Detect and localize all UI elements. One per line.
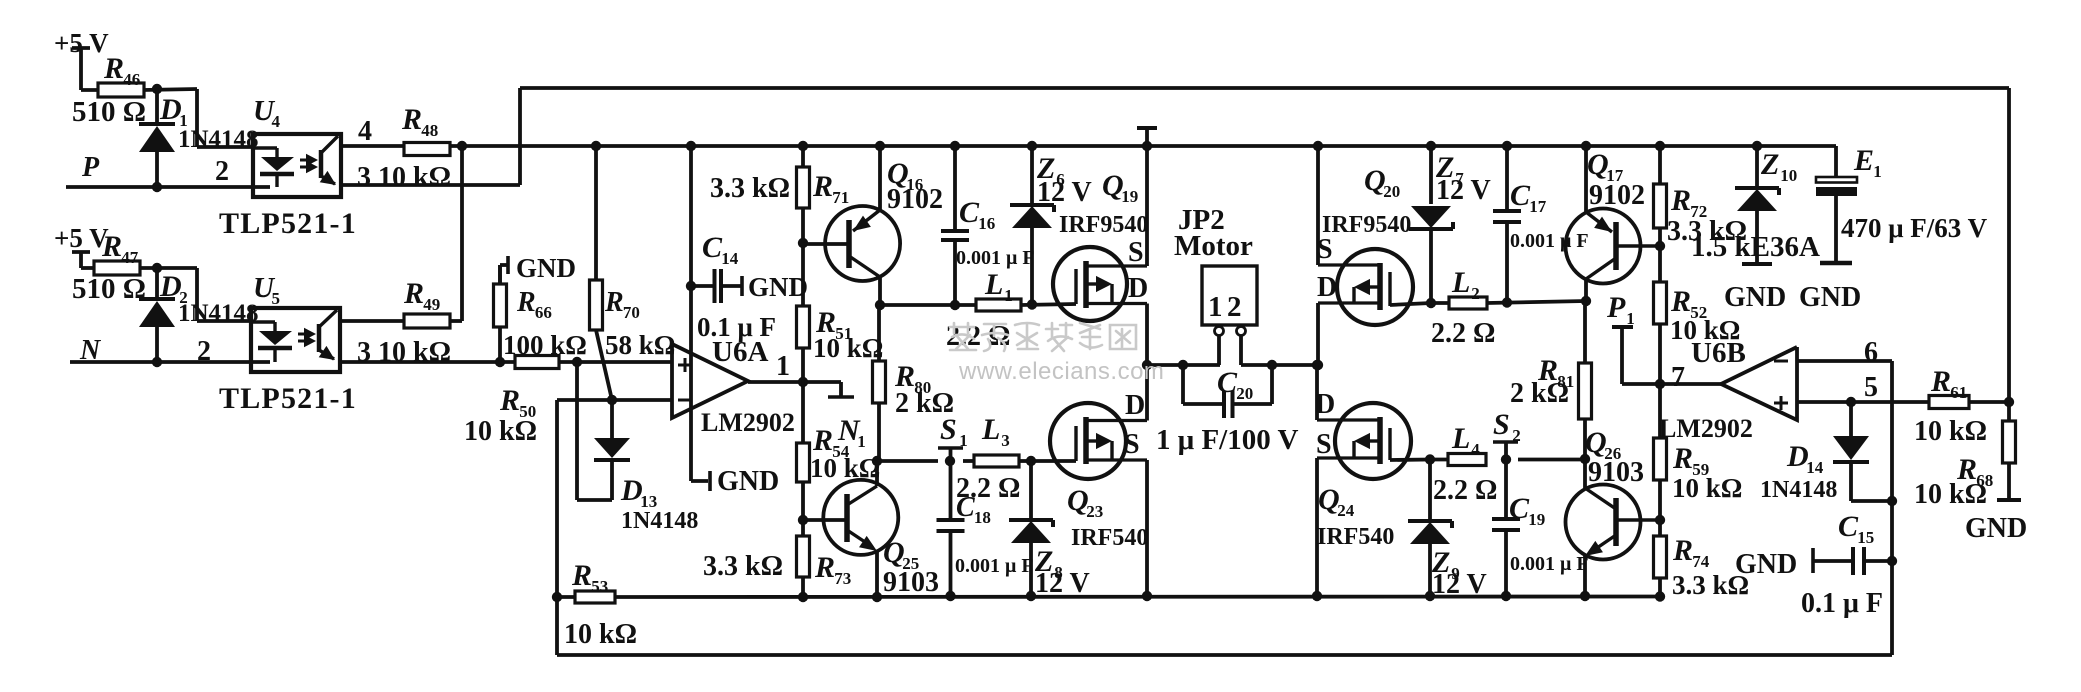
svg-text:R: R (812, 170, 833, 203)
svg-text:R: R (1672, 534, 1693, 567)
svg-text:1: 1 (1626, 309, 1635, 328)
svg-text:2: 2 (1512, 426, 1521, 445)
svg-text:0.1 μ F: 0.1 μ F (1801, 588, 1883, 619)
svg-text:73: 73 (834, 569, 851, 588)
svg-text:1: 1 (776, 351, 790, 382)
svg-text:1: 1 (959, 431, 968, 450)
svg-text:510 Ω: 510 Ω (72, 96, 146, 128)
svg-text:53: 53 (591, 577, 608, 596)
svg-text:12 V: 12 V (1037, 177, 1092, 208)
svg-text:C: C (1217, 366, 1238, 399)
svg-text:D: D (1125, 390, 1145, 421)
svg-text:18: 18 (974, 508, 991, 527)
svg-text:12 V: 12 V (1035, 568, 1090, 599)
svg-text:3: 3 (1001, 431, 1010, 450)
svg-text:R: R (1930, 365, 1951, 398)
svg-text:1N4148: 1N4148 (621, 508, 698, 534)
svg-text:10 kΩ: 10 kΩ (464, 416, 537, 447)
svg-text:47: 47 (121, 248, 139, 267)
svg-text:GND: GND (717, 466, 779, 497)
svg-text:4: 4 (358, 116, 372, 147)
svg-text:R: R (571, 559, 592, 592)
svg-text:61: 61 (1950, 383, 1967, 402)
svg-text:R: R (516, 287, 536, 318)
svg-text:GND: GND (1799, 282, 1861, 313)
svg-text:66: 66 (535, 303, 552, 322)
svg-text:10 kΩ: 10 kΩ (1914, 479, 1987, 510)
svg-text:S: S (1316, 429, 1332, 460)
svg-text:1N4148: 1N4148 (178, 300, 259, 327)
svg-text:U6A: U6A (712, 336, 768, 368)
svg-text:24: 24 (1337, 501, 1355, 520)
svg-text:19: 19 (1121, 187, 1138, 206)
svg-text:LM2902: LM2902 (701, 408, 795, 437)
svg-text:10 kΩ: 10 kΩ (1672, 473, 1742, 503)
svg-text:E: E (1853, 144, 1874, 177)
svg-text:S: S (940, 413, 957, 446)
svg-text:R: R (814, 551, 835, 584)
svg-text:Z: Z (1760, 148, 1779, 181)
svg-text:470 μ F/63 V: 470 μ F/63 V (1841, 213, 1988, 243)
svg-text:LM2902: LM2902 (1659, 414, 1753, 443)
svg-text:1N4148: 1N4148 (1760, 477, 1837, 503)
svg-text:0.001 μ F: 0.001 μ F (956, 247, 1035, 269)
svg-text:R: R (401, 103, 422, 136)
svg-text:2.2 Ω: 2.2 Ω (1431, 318, 1495, 349)
svg-text:10 kΩ: 10 kΩ (813, 333, 883, 363)
svg-text:10 kΩ: 10 kΩ (810, 453, 880, 483)
svg-text:S: S (1493, 408, 1510, 441)
svg-text:L: L (981, 413, 1000, 446)
svg-text:Motor: Motor (1174, 230, 1253, 262)
svg-text:GND: GND (1724, 282, 1786, 313)
svg-text:U6B: U6B (1691, 337, 1746, 369)
svg-text:6: 6 (1864, 337, 1878, 368)
svg-text:10 kΩ: 10 kΩ (1914, 416, 1987, 447)
svg-text:IRF540: IRF540 (1317, 524, 1394, 550)
svg-text:S: S (1317, 234, 1333, 265)
svg-text:1N4148: 1N4148 (178, 126, 259, 153)
svg-text:C: C (1510, 179, 1531, 212)
svg-text:R: R (1672, 442, 1693, 475)
svg-text:1: 1 (1004, 286, 1013, 305)
svg-text:3 10 kΩ: 3 10 kΩ (357, 162, 451, 193)
svg-text:L: L (1451, 266, 1470, 299)
svg-text:14: 14 (721, 249, 739, 268)
svg-text:5: 5 (272, 289, 281, 308)
svg-text:7: 7 (1671, 362, 1685, 393)
svg-text:IRF540: IRF540 (1071, 525, 1148, 551)
svg-text:+5 V: +5 V (54, 28, 109, 58)
svg-text:17: 17 (1529, 197, 1547, 216)
svg-text:www.elecians.com: www.elecians.com (958, 358, 1164, 385)
svg-text:D: D (1317, 272, 1337, 303)
svg-text:S: S (1128, 237, 1144, 268)
svg-text:D: D (1128, 273, 1148, 304)
svg-text:15: 15 (1857, 528, 1874, 547)
svg-text:49: 49 (423, 295, 440, 314)
svg-text:10 kΩ: 10 kΩ (564, 619, 637, 650)
svg-text:19: 19 (1528, 510, 1545, 529)
svg-text:L: L (984, 268, 1003, 301)
svg-text:GND: GND (1965, 513, 2027, 544)
svg-text:3 10 kΩ: 3 10 kΩ (357, 337, 451, 368)
svg-text:4: 4 (272, 112, 281, 131)
svg-text:R: R (604, 287, 624, 318)
svg-text:0.001 μ F: 0.001 μ F (1510, 553, 1589, 575)
svg-text:0.001 μ F: 0.001 μ F (1510, 230, 1589, 252)
svg-text:C: C (959, 196, 980, 229)
svg-text:9102: 9102 (1589, 180, 1645, 211)
svg-text:3.3 kΩ: 3.3 kΩ (710, 173, 790, 204)
svg-text:IRF9540: IRF9540 (1322, 212, 1411, 238)
svg-text:2: 2 (1227, 291, 1242, 323)
svg-text:1 μ F/100 V: 1 μ F/100 V (1156, 424, 1298, 456)
svg-text:R: R (499, 384, 520, 417)
svg-text:2: 2 (197, 336, 211, 367)
svg-text:R: R (1670, 285, 1691, 318)
svg-text:1.5 kE36A: 1.5 kE36A (1691, 231, 1820, 263)
svg-text:9103: 9103 (1588, 457, 1644, 488)
svg-text:P: P (1606, 291, 1626, 324)
svg-text:R: R (403, 277, 424, 310)
svg-text:10: 10 (1780, 166, 1797, 185)
svg-text:71: 71 (832, 188, 849, 207)
svg-text:2.2 Ω: 2.2 Ω (1433, 475, 1497, 506)
svg-text:20: 20 (1236, 384, 1253, 403)
svg-text:20: 20 (1383, 182, 1400, 201)
svg-text:48: 48 (421, 121, 438, 140)
svg-text:14: 14 (1806, 458, 1824, 477)
svg-text:5: 5 (1864, 372, 1878, 403)
svg-text:4: 4 (1471, 440, 1480, 459)
svg-text:L: L (1451, 422, 1470, 455)
svg-text:D: D (1315, 389, 1335, 420)
svg-text:12 V: 12 V (1436, 175, 1491, 206)
svg-text:2: 2 (1471, 284, 1480, 303)
svg-text:1: 1 (1873, 162, 1882, 181)
svg-text:C: C (1509, 492, 1530, 525)
svg-text:510 Ω: 510 Ω (72, 273, 146, 305)
svg-text:P: P (81, 152, 100, 183)
svg-text:+5 V: +5 V (54, 223, 109, 253)
svg-text:C: C (1838, 510, 1859, 543)
svg-text:58 kΩ: 58 kΩ (605, 330, 675, 360)
svg-text:9102: 9102 (887, 184, 943, 215)
svg-text:0.001 μ F: 0.001 μ F (955, 555, 1034, 577)
svg-text:9103: 9103 (883, 567, 939, 598)
svg-text:70: 70 (623, 303, 640, 322)
svg-text:R: R (103, 52, 124, 85)
svg-text:R: R (1670, 184, 1691, 217)
svg-text:2: 2 (215, 156, 229, 187)
svg-text:GND: GND (1735, 549, 1797, 580)
svg-text:74: 74 (1692, 552, 1710, 571)
svg-text:46: 46 (123, 70, 140, 89)
svg-text:TLP521-1: TLP521-1 (219, 382, 357, 415)
svg-text:2 kΩ: 2 kΩ (1510, 378, 1569, 409)
svg-text:12 V: 12 V (1432, 569, 1487, 600)
svg-text:C: C (956, 492, 975, 523)
svg-text:GND: GND (748, 272, 808, 302)
svg-text:100 kΩ: 100 kΩ (503, 330, 587, 360)
svg-text:R: R (101, 230, 122, 263)
svg-text:IRF9540: IRF9540 (1059, 212, 1148, 238)
svg-text:N: N (79, 335, 102, 366)
svg-text:C: C (702, 231, 723, 264)
svg-text:16: 16 (978, 214, 995, 233)
svg-text:1: 1 (1208, 291, 1223, 323)
svg-text:3.3 kΩ: 3.3 kΩ (703, 551, 783, 582)
svg-text:S: S (1124, 429, 1140, 460)
svg-text:TLP521-1: TLP521-1 (219, 207, 357, 240)
svg-text:23: 23 (1086, 502, 1103, 521)
svg-text:GND: GND (516, 253, 576, 283)
svg-text:1: 1 (857, 432, 866, 451)
